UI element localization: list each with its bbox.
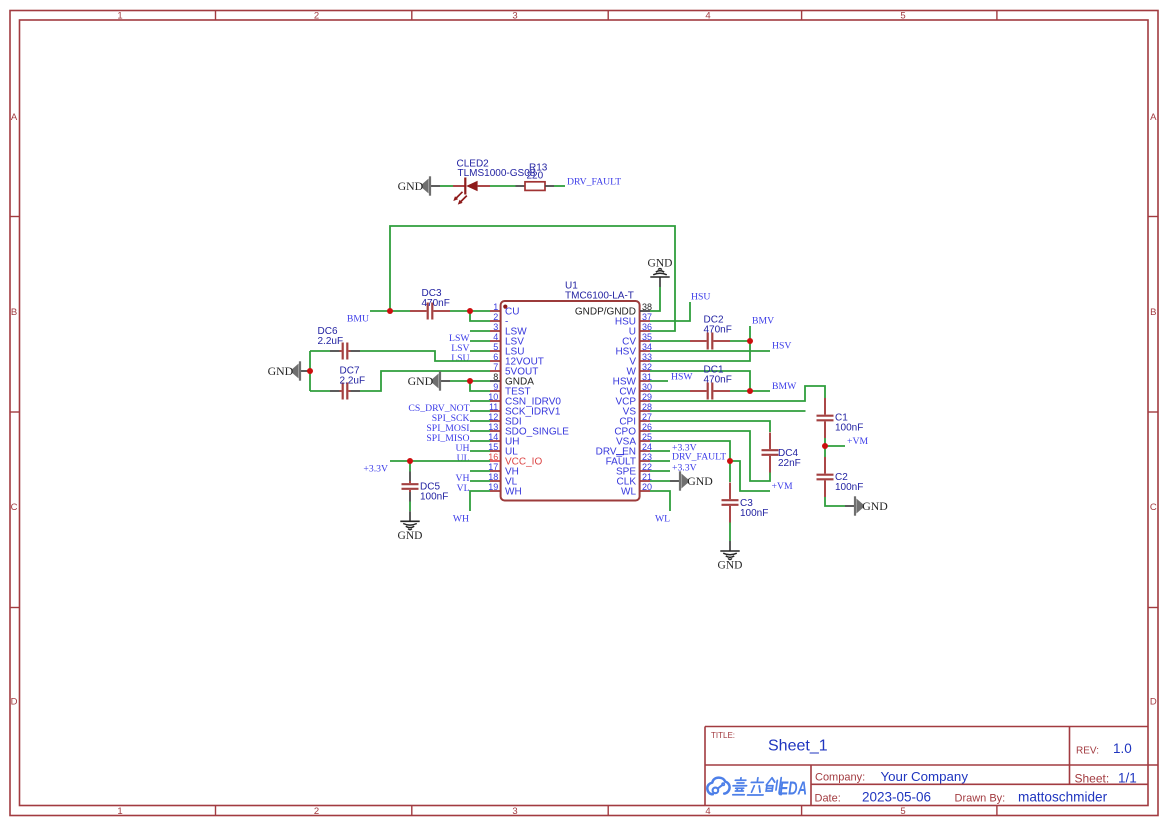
svg-text:8: 8 <box>493 372 498 382</box>
pin 17 (VH) <box>490 470 500 472</box>
svg-text:GND: GND <box>398 179 424 193</box>
pin 24 (DRV_EN) <box>640 450 650 452</box>
svg-text:1/1: 1/1 <box>1118 771 1137 786</box>
capacitor DC1 <box>707 383 709 400</box>
svg-text:BMW: BMW <box>772 381 797 392</box>
pin 31 (HSW) <box>640 380 650 382</box>
wire pin4 stub <box>470 340 490 342</box>
svg-text:HSV: HSV <box>772 341 791 352</box>
pin 7 (5VOUT) <box>490 370 500 372</box>
svg-text:WL: WL <box>655 513 670 524</box>
wire to pin 9 <box>470 381 490 391</box>
wire to pin 2 <box>470 311 490 321</box>
svg-text:B: B <box>11 307 17 318</box>
svg-text:EDA: EDA <box>780 778 808 799</box>
wire pin38 to gnd <box>650 287 660 311</box>
pin 33 (V) <box>640 360 650 362</box>
pin 12 (SDI) <box>490 420 500 422</box>
svg-text:+VM: +VM <box>847 436 868 447</box>
svg-text:2023-05-06: 2023-05-06 <box>862 789 931 804</box>
svg-text:2: 2 <box>314 806 319 817</box>
svg-text:WL: WL <box>621 487 636 498</box>
svg-text:C: C <box>11 502 18 513</box>
wire pin15 stub <box>470 450 490 452</box>
svg-text:D: D <box>1150 696 1157 707</box>
wire pin27 CPI to DC4 <box>650 421 770 432</box>
svg-text:22nF: 22nF <box>778 458 801 469</box>
junction dot <box>747 388 753 394</box>
wire DC7 to pin7 <box>360 371 490 391</box>
svg-text:mattoschmider: mattoschmider <box>1018 789 1108 804</box>
junction dot <box>467 308 473 314</box>
wire big loop CU to U <box>390 226 675 331</box>
wire pin21 stub <box>650 480 670 482</box>
logo text JLC CJK glyphs <box>732 778 784 795</box>
svg-text:BMU: BMU <box>347 314 369 325</box>
svg-text:470nF: 470nF <box>704 375 732 386</box>
ground (LED branch) <box>430 185 440 187</box>
svg-text:+3.3V: +3.3V <box>672 462 697 473</box>
svg-text:100nF: 100nF <box>835 423 863 434</box>
svg-text:Your Company: Your Company <box>881 769 969 784</box>
pin 13 (SDO_SINGLE) <box>490 430 500 432</box>
junction dot <box>407 458 413 464</box>
wire pin22 stub <box>650 470 670 472</box>
capacitor DC2 <box>707 333 709 350</box>
svg-text:WH: WH <box>453 513 469 524</box>
svg-text:Sheet:: Sheet: <box>1075 772 1110 786</box>
wire pin3 stub <box>470 330 490 332</box>
capacitor C3 <box>722 499 739 501</box>
wire pin26 CPO to DC4 <box>650 431 770 481</box>
frame row ticks <box>10 216 20 218</box>
svg-text:HSW: HSW <box>671 372 693 383</box>
svg-text:2.2uF: 2.2uF <box>340 375 366 386</box>
svg-text:Sheet_1: Sheet_1 <box>768 738 828 755</box>
svg-text:LSU: LSU <box>451 353 469 364</box>
wire pin19 WH <box>470 491 490 511</box>
wire C3 to gnd <box>729 523 731 542</box>
pin 2 (-) <box>490 320 500 322</box>
capacitor DC6 <box>342 343 344 360</box>
wire BMV vertical to pin33 <box>650 326 750 361</box>
wire VM node to C2 <box>824 446 826 457</box>
svg-text:220: 220 <box>527 171 544 182</box>
ground (C2) <box>845 505 855 507</box>
pin 16 (VCC_IO) <box>490 460 500 462</box>
wire pin13 stub <box>470 430 490 432</box>
svg-text:Drawn By:: Drawn By: <box>955 792 1006 804</box>
wire 3.3V rail to pin16 <box>390 460 490 462</box>
svg-text:1.0: 1.0 <box>1113 741 1132 756</box>
svg-text:+VM: +VM <box>772 481 793 492</box>
pin 19 (WH) <box>490 490 500 492</box>
wire VM stub <box>825 445 845 447</box>
wire pin31 stub <box>650 380 668 382</box>
svg-text:D: D <box>11 696 18 707</box>
pin 23 (FAULT) <box>640 460 650 462</box>
svg-text:1: 1 <box>117 10 122 21</box>
svg-text:REV:: REV: <box>1076 745 1099 756</box>
ground (C3) <box>729 541 731 551</box>
pin 15 (UL) <box>490 450 500 452</box>
wire pin10 stub <box>470 400 490 402</box>
svg-text:2: 2 <box>314 10 319 21</box>
wire DC3 to pin1 <box>450 310 490 312</box>
pin 6 (12VOUT) <box>490 360 500 362</box>
wire gnd to pin8 <box>450 380 490 382</box>
wire pin32 W down <box>650 371 750 391</box>
junction dot <box>727 458 733 464</box>
wire DC1 to BMW node <box>730 390 770 392</box>
svg-text:5: 5 <box>493 342 498 352</box>
wire pin11 stub <box>470 410 490 412</box>
wire C1 to VM node <box>824 438 826 446</box>
wire pin12 stub <box>470 420 490 422</box>
wire pin17 stub <box>470 470 490 472</box>
svg-text:1: 1 <box>117 806 122 817</box>
pin 28 (VS) <box>640 410 650 412</box>
pin 11 (SCK_IDRV1) <box>490 410 500 412</box>
wire pin23 stub <box>650 460 670 462</box>
svg-text:470nF: 470nF <box>422 298 450 309</box>
wire VSA to C3 <box>729 461 731 482</box>
svg-text:GND: GND <box>687 474 713 488</box>
svg-text:TITLE:: TITLE: <box>711 731 735 740</box>
wire pin30 to DC1 <box>650 390 690 392</box>
svg-text:GND: GND <box>862 499 888 513</box>
svg-text:2: 2 <box>493 312 498 322</box>
title block frame <box>705 727 1158 806</box>
pin 32 (W) <box>640 370 650 372</box>
svg-text:5: 5 <box>900 10 905 21</box>
capacitor C2 <box>817 474 834 476</box>
pin 37 (HSU) <box>640 320 650 322</box>
svg-text:C: C <box>1150 502 1157 513</box>
ground (left rail) <box>300 370 310 372</box>
ground (GNDP) <box>659 277 661 287</box>
wire DC7 left <box>310 390 330 392</box>
pin 14 (UH) <box>490 440 500 442</box>
svg-text:WH: WH <box>505 487 522 498</box>
pin 9 (TEST) <box>490 390 500 392</box>
wire pin34 HSV <box>650 350 770 352</box>
wire DC2 to BMV node <box>730 340 750 342</box>
svg-text:3: 3 <box>493 322 498 332</box>
pin 3 (LSW) <box>490 330 500 332</box>
svg-text:Company:: Company: <box>815 772 865 784</box>
svg-text:GND: GND <box>648 258 673 270</box>
svg-text:GND: GND <box>718 560 743 572</box>
wire pin28 VS <box>650 410 806 412</box>
svg-text:DRV_FAULT: DRV_FAULT <box>672 452 726 463</box>
ground (CLK) <box>670 480 680 482</box>
svg-text:TMC6100-LA-T: TMC6100-LA-T <box>565 290 634 301</box>
capacitor DC7 <box>342 383 344 400</box>
pin 1 (CU) <box>490 310 500 312</box>
capacitor C1 <box>817 415 834 417</box>
pin 20 (WL) <box>640 490 650 492</box>
svg-text:UL: UL <box>457 453 470 464</box>
svg-text:4: 4 <box>493 332 498 342</box>
pin 8 (GNDA) <box>490 380 500 382</box>
junction dot <box>307 368 313 374</box>
svg-text:2.2uF: 2.2uF <box>318 336 344 347</box>
svg-text:GND: GND <box>408 374 434 388</box>
resistor R13 <box>516 185 526 187</box>
pin 25 (VSA) <box>640 440 650 442</box>
svg-text:4: 4 <box>705 806 710 817</box>
frame column ticks <box>215 11 217 21</box>
wire pin37 HSU <box>650 302 690 321</box>
svg-text:B: B <box>1150 307 1156 318</box>
pin 34 (HSV) <box>640 350 650 352</box>
wire <box>490 185 516 187</box>
svg-text:A: A <box>1150 112 1157 123</box>
junction dot <box>747 338 753 344</box>
wire pin20 WL <box>650 491 670 511</box>
capacitor DC4 <box>762 449 779 451</box>
svg-text:1: 1 <box>493 302 498 312</box>
wire pin25 VSA down <box>650 441 730 461</box>
pin 5 (LSU) <box>490 350 500 352</box>
svg-text:Date:: Date: <box>815 792 841 804</box>
svg-text:HSU: HSU <box>691 292 710 303</box>
wire pin24 stub <box>650 450 670 452</box>
svg-text:BMV: BMV <box>752 316 774 327</box>
wire BMU stub <box>370 310 410 312</box>
LED emission arrows <box>456 192 463 199</box>
pin 1 indicator dot <box>503 305 507 309</box>
svg-text:100nF: 100nF <box>420 492 448 503</box>
svg-text:VL: VL <box>457 483 470 494</box>
svg-text:GND: GND <box>398 530 423 542</box>
pin 4 (LSV) <box>490 340 500 342</box>
svg-text:5: 5 <box>900 806 905 817</box>
wire 3.3V to DC5 <box>409 461 411 472</box>
pin 29 (VCP) <box>640 400 650 402</box>
LED CLED2 <box>453 185 465 187</box>
svg-text:6: 6 <box>493 352 498 362</box>
svg-text:9: 9 <box>493 382 498 392</box>
pin 36 (U) <box>640 330 650 332</box>
svg-text:DRV_FAULT: DRV_FAULT <box>567 177 621 188</box>
svg-text:7: 7 <box>493 362 498 372</box>
junction dot <box>822 443 828 449</box>
svg-text:3: 3 <box>512 10 517 21</box>
wire <box>554 185 565 187</box>
capacitor DC5 <box>402 483 419 485</box>
wire DC6 left <box>310 350 330 352</box>
pin 35 (CV) <box>640 340 650 342</box>
IC U1 TMC6100-LA-T body <box>501 301 640 501</box>
wire pin14 stub <box>470 440 490 442</box>
svg-text:4: 4 <box>705 10 710 21</box>
wire <box>440 185 453 187</box>
wire pin18 stub <box>470 480 490 482</box>
logo cloud <box>707 778 729 795</box>
pin 26 (CPO) <box>640 430 650 432</box>
pin 22 (SPE) <box>640 470 650 472</box>
pin 10 (CSN_IDRV0) <box>490 400 500 402</box>
ground (DC5) <box>409 511 411 521</box>
pin 27 (CPI) <box>640 420 650 422</box>
pin 30 (CW) <box>640 390 650 392</box>
pin 38 (GNDP/GNDD) <box>640 310 650 312</box>
capacitor DC3 <box>427 303 429 320</box>
svg-text:11: 11 <box>489 402 498 412</box>
junction dot <box>387 308 393 314</box>
svg-text:A: A <box>11 112 18 123</box>
pin 18 (VL) <box>490 480 500 482</box>
junction dot <box>467 378 473 384</box>
FAULT overline <box>616 454 624 456</box>
wire left rail vertical <box>309 351 311 391</box>
pin 21 (CLK) <box>640 480 650 482</box>
wire DC6 to pin6 <box>360 351 490 361</box>
svg-text:+3.3V: +3.3V <box>363 464 388 475</box>
svg-text:100nF: 100nF <box>740 508 768 519</box>
wire C2 to gnd <box>825 497 845 506</box>
wire VSA to +VM <box>730 461 770 491</box>
wire pin29 VCP to C1 <box>650 386 825 401</box>
svg-text:470nF: 470nF <box>704 325 732 336</box>
svg-text:100nF: 100nF <box>835 482 863 493</box>
ground (GNDA) <box>440 380 450 382</box>
svg-text:GND: GND <box>268 364 294 378</box>
svg-text:TLMS1000-GS08: TLMS1000-GS08 <box>458 168 536 179</box>
svg-text:3: 3 <box>512 806 517 817</box>
wire pin5 stub <box>470 350 490 352</box>
wire DC5 to gnd <box>409 502 411 512</box>
wire pin35 to DC2 <box>650 340 690 342</box>
